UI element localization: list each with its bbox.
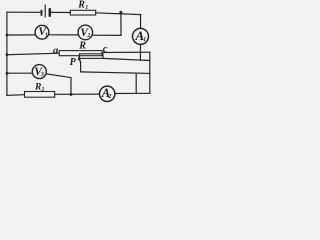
svg-text:P: P (70, 57, 77, 68)
svg-text:c: c (103, 44, 108, 55)
svg-text:3: 3 (40, 72, 44, 78)
wire rheostat row left (7, 53, 59, 55)
ammeter A1 (133, 28, 149, 44)
svg-text:1: 1 (45, 32, 48, 38)
junction dot top riser (119, 11, 122, 14)
wire bottom left (7, 94, 25, 97)
voltmeter V1 (35, 25, 49, 39)
battery (42, 5, 50, 17)
slider P arrow shaft (80, 62, 82, 72)
wire A1 down (139, 45, 141, 61)
svg-text:R: R (34, 83, 41, 93)
svg-text:2: 2 (107, 94, 111, 100)
junction dot bus rheostat row (6, 53, 9, 56)
junction dot bottom V3 drop (70, 93, 73, 96)
wire V3 row left (7, 72, 33, 74)
wire V row left (7, 34, 36, 36)
svg-text:1: 1 (85, 5, 88, 11)
voltmeter V3 (32, 65, 46, 79)
slider P arrow tilted head (79, 59, 80, 63)
wire V2 right (92, 34, 121, 36)
wire slider to right bus (81, 72, 150, 74)
svg-text:a: a (53, 46, 58, 57)
wire V3 branch drop (70, 78, 72, 95)
wire c to right bus (102, 51, 150, 53)
wire rail corner to right bus (103, 58, 150, 60)
wire V1 to V2 (49, 34, 79, 36)
voltmeter V2 (78, 25, 93, 40)
resistor R1 top box (70, 10, 95, 15)
resistor R1 bottom box (25, 92, 55, 98)
svg-text:1: 1 (42, 87, 45, 93)
wire top left (7, 11, 41, 13)
svg-text:R: R (77, 0, 85, 11)
junction dot bus V3 row (6, 72, 9, 75)
rheostat slider rail box (80, 54, 104, 59)
wire right bus (149, 52, 151, 93)
wire left bus (6, 12, 8, 95)
ammeter A2 (100, 86, 115, 101)
wire R1 to A2 (55, 93, 100, 95)
wire V3 sloped (46, 74, 71, 78)
svg-text:R: R (78, 41, 86, 52)
svg-text:2: 2 (86, 33, 90, 39)
wire riser to top junction (120, 12, 122, 35)
wire battery to R1 (51, 11, 70, 13)
rheostat R box (59, 51, 102, 56)
wire R1 to corner (96, 13, 141, 15)
wire corner down to A1 (140, 15, 142, 29)
junction dot bus V row (6, 34, 9, 37)
wire A2 to right bus (115, 92, 150, 94)
svg-text:1: 1 (143, 37, 146, 43)
wire connector line B to bottom (135, 73, 137, 93)
